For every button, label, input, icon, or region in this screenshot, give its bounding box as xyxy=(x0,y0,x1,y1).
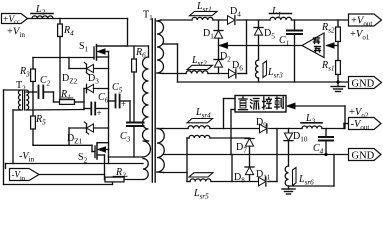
resistor R5 xyxy=(32,92,34,116)
wire sec2 centre tap W2 xyxy=(163,154,348,156)
wire W2-W3 bridge left xyxy=(231,155,233,182)
ground symbol xyxy=(337,82,339,87)
wire drain column xyxy=(127,19,129,47)
wire gate rail S2 xyxy=(33,144,92,146)
wire R4 to R1 column xyxy=(59,58,61,100)
wire T2 left bottom xyxy=(13,109,21,111)
wire loop A to S2 node xyxy=(109,156,143,158)
capacitor C3 xyxy=(127,122,144,124)
svg-text:GND: GND xyxy=(352,79,375,90)
T1 secondary 2 xyxy=(157,129,164,173)
wire -Vin tap xyxy=(39,174,105,176)
feedback wire to D1/D2 node xyxy=(219,45,303,47)
GND terminal secondary 1 xyxy=(349,77,382,89)
wire gate rail S1 xyxy=(33,57,94,59)
wire C5 to C3 top xyxy=(129,101,131,123)
wire left frame xyxy=(3,90,5,185)
svg-text:GND: GND xyxy=(352,151,375,162)
+Vout terminal xyxy=(349,14,382,26)
wire GND rail secondary 1 xyxy=(178,81,349,83)
wire sec1 top xyxy=(157,20,161,21)
GND terminal secondary 2 xyxy=(349,149,382,161)
inductor Lsr6 xyxy=(285,166,288,186)
T1 secondary 1 xyxy=(157,21,164,73)
wire control input from output xyxy=(288,105,345,107)
svg-text:+: + xyxy=(97,108,102,118)
wire T2 right bottom to node xyxy=(26,109,84,112)
wire W1 output rail xyxy=(210,128,260,130)
feedback input arrow xyxy=(327,45,338,47)
zener DZ1 xyxy=(68,128,70,145)
winding row2 to D7 xyxy=(189,135,210,138)
svg-text:+: + xyxy=(121,99,126,109)
wire W2-W3 bridge right xyxy=(276,129,278,182)
wire -Vin rail xyxy=(6,163,144,165)
wire D6 node up xyxy=(246,20,248,74)
node column D3/C6 xyxy=(83,89,85,110)
T1 core xyxy=(151,19,153,182)
zener DZ2 xyxy=(68,58,70,69)
-Vout terminal xyxy=(349,118,382,130)
wire W3 xyxy=(187,181,190,183)
wire T2 left top to frame xyxy=(4,89,22,91)
saturable reactor Lsr5 xyxy=(189,173,213,177)
wire primary top xyxy=(97,45,149,47)
T1 primary winding xyxy=(143,57,149,141)
resistor R6 xyxy=(133,46,135,59)
saturable reactor Lsr3 xyxy=(256,60,259,78)
feedback amplifier xyxy=(302,33,324,58)
DC control box xyxy=(235,96,286,113)
resistor R4 xyxy=(59,19,61,25)
wire top rail xyxy=(28,18,128,20)
ground symbol secondary 2 xyxy=(288,186,290,189)
wire control tap1 xyxy=(223,99,225,129)
resistor R1 xyxy=(54,101,60,103)
wire sec2 bottom xyxy=(157,171,164,174)
wire sec1 centre tap to gnd rail xyxy=(163,43,177,45)
wire Lsr6 bottom loop xyxy=(289,185,335,187)
resistor R3 xyxy=(32,58,34,70)
wire S1 source column xyxy=(108,52,110,164)
wire control tap2 xyxy=(231,109,235,111)
wire S2 source down xyxy=(104,155,106,180)
+Vcc input terminal xyxy=(2,14,28,24)
wire sec1 bottom xyxy=(157,72,163,75)
-Vin terminal xyxy=(10,169,40,181)
wire sec2 top W1 xyxy=(157,128,164,130)
